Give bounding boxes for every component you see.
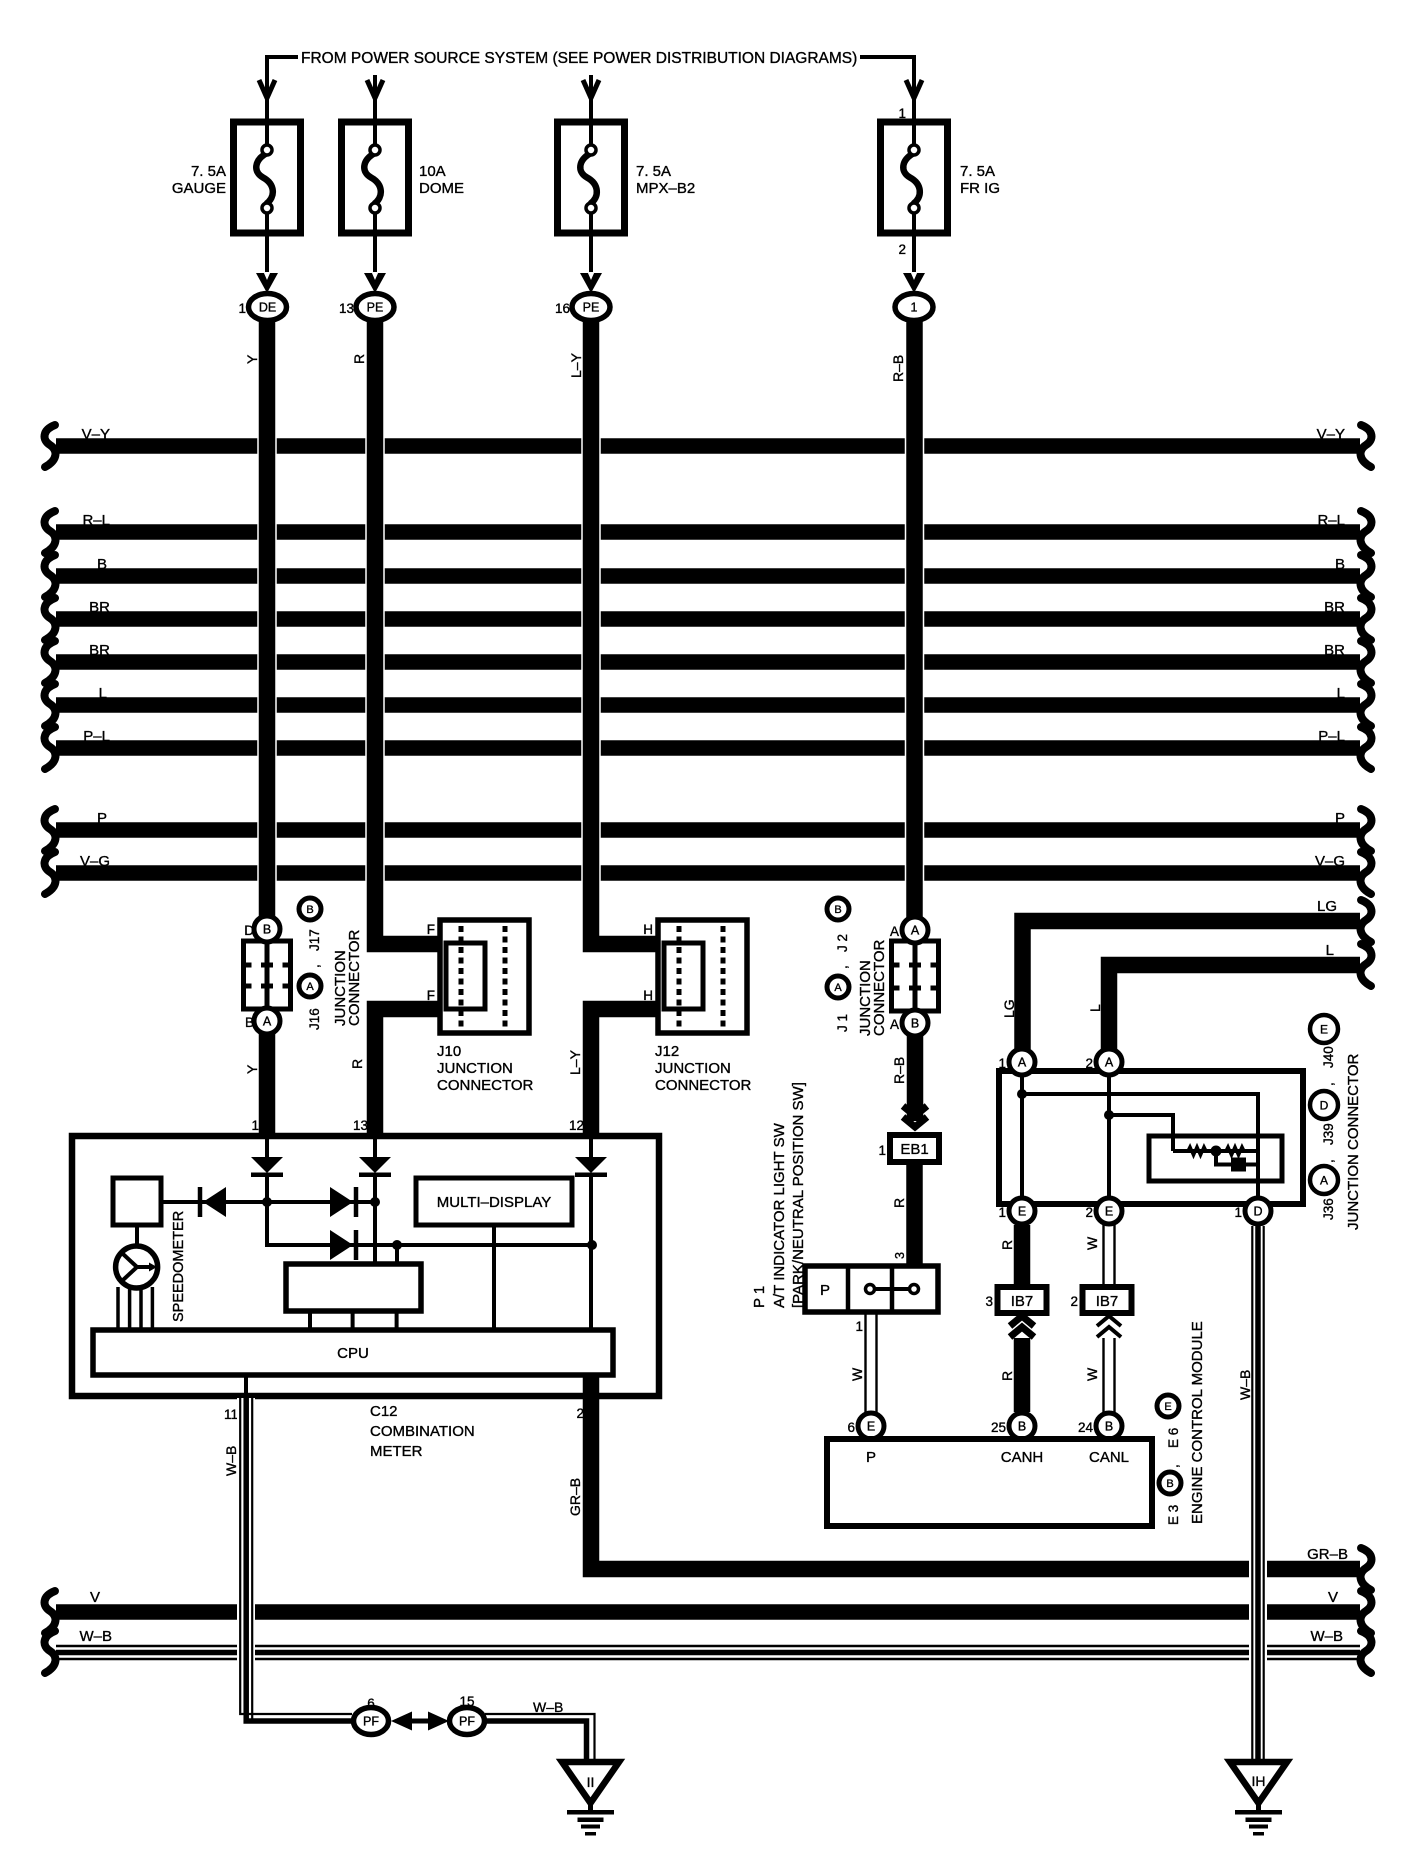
wire header to fuse F4 [860, 57, 914, 122]
diode D4 left-pointing [200, 1187, 226, 1217]
node dot row A at R [370, 1197, 380, 1207]
wire label L-Y [568, 352, 584, 378]
resistor line [1173, 1149, 1258, 1153]
connector oval 1 [895, 294, 933, 321]
wire label R lower [999, 1371, 1015, 1381]
svg-text:J17: J17 [307, 929, 322, 951]
svg-text:R: R [999, 1371, 1015, 1381]
inline arrows below IB7 (solid) [1010, 1316, 1034, 1337]
connector oval PE (13) [356, 294, 394, 321]
pin number 25 [991, 1420, 1006, 1435]
svg-text:V–G: V–G [1315, 853, 1345, 870]
fuse F3 7.5A MPX-B2 [558, 122, 625, 233]
svg-text:J10: J10 [437, 1043, 461, 1060]
wire row B to power box [395, 1245, 399, 1264]
pin number 1 at E [998, 1205, 1006, 1220]
svg-text:B: B [1335, 556, 1345, 573]
pin number 1 at EB1 [878, 1143, 886, 1158]
node dot row A at Y [262, 1197, 272, 1207]
svg-text:13: 13 [339, 301, 354, 316]
svg-text:P–L: P–L [83, 728, 110, 745]
pin 1 A circle [1009, 1049, 1035, 1075]
svg-text:J16: J16 [307, 1008, 322, 1030]
wire label R lower (J10) [349, 1059, 365, 1069]
pin 25 B circle [1009, 1413, 1035, 1439]
svg-text:P: P [866, 1449, 876, 1466]
svg-text:P 1: P 1 [751, 1286, 768, 1308]
svg-text:1: 1 [1234, 1205, 1242, 1220]
arrow on feed wire [583, 75, 599, 122]
svg-text:1: 1 [998, 1056, 1006, 1071]
label fuse F1 [172, 163, 226, 197]
wire label Y lower [244, 1064, 260, 1074]
svg-text:R: R [891, 1198, 907, 1208]
wire label W upper [1084, 1236, 1100, 1250]
svg-text:J36: J36 [1321, 1198, 1336, 1220]
svg-text:J12: J12 [655, 1043, 679, 1060]
svg-text:LG: LG [1001, 999, 1017, 1018]
svg-text:E: E [1018, 1205, 1026, 1219]
svg-text:E: E [1105, 1205, 1113, 1219]
fuse F4 7.5A FR IG [881, 122, 948, 233]
svg-text:7. 5A: 7. 5A [636, 163, 671, 180]
svg-text:R: R [351, 354, 367, 364]
svg-text:,: , [835, 965, 850, 969]
svg-text:A: A [911, 924, 920, 938]
node dot row B at power box [392, 1240, 402, 1250]
svg-text:1: 1 [911, 301, 918, 315]
arrow on feed wire [906, 80, 922, 122]
svg-text:PF: PF [363, 1715, 379, 1729]
pin 24 B circle [1096, 1413, 1122, 1439]
A/T indicator switch P1 box [805, 1266, 938, 1312]
svg-text:DE: DE [259, 301, 276, 315]
bus wire L right [1109, 942, 1371, 1049]
svg-text:B: B [306, 904, 313, 916]
internal wire node2 to resistors [1109, 1115, 1173, 1151]
pin 13 of combination meter [353, 1118, 368, 1133]
svg-text:H: H [643, 922, 653, 937]
junction connector J12 box [658, 920, 747, 1033]
svg-text:P: P [1335, 810, 1345, 827]
wire label W lower [1084, 1367, 1100, 1381]
svg-text:24: 24 [1078, 1420, 1094, 1435]
svg-text:1: 1 [878, 1143, 886, 1158]
wire R-B from J1 to EB1 [907, 1035, 924, 1121]
label J16 A , J17 B [299, 898, 322, 1030]
label E3 B , E6 E [1157, 1395, 1181, 1525]
ground IH [1230, 1762, 1287, 1836]
svg-text:METER: METER [370, 1443, 423, 1460]
wire from J12 to meter [591, 1009, 659, 1136]
svg-text:B: B [97, 556, 107, 573]
wire label R upper [999, 1240, 1015, 1250]
svg-text:FR IG: FR IG [960, 180, 1000, 197]
pin label D [244, 923, 254, 938]
svg-text:CONNECTOR: CONNECTOR [871, 939, 888, 1036]
svg-text:10A: 10A [419, 163, 446, 180]
resistor R1 [1188, 1147, 1206, 1155]
svg-text:J39: J39 [1321, 1123, 1336, 1145]
pin number 2 at A [1085, 1056, 1093, 1071]
svg-text:BR: BR [89, 599, 110, 616]
wire W from P1 to ECM pin 6E [866, 1312, 877, 1413]
connector oval PF pin 15 [450, 1708, 485, 1735]
fuse F1 7.5A GAUGE [234, 122, 301, 233]
label J12 JUNCTION CONNECTOR [655, 1043, 752, 1094]
svg-text:J 2: J 2 [835, 934, 850, 952]
svg-text:12: 12 [569, 1118, 584, 1133]
svg-text:13: 13 [353, 1118, 368, 1133]
svg-text:Y: Y [244, 354, 260, 364]
fuse F2 10A DOME [342, 122, 409, 233]
svg-text:B: B [1018, 1420, 1026, 1434]
label J1 A , J2 B [827, 898, 850, 1032]
wire L-Y vertical [591, 319, 659, 944]
svg-text:P: P [97, 810, 107, 827]
wire W-B from meter pin 11 (triple) [240, 1398, 353, 1722]
combination meter C12 box [72, 1136, 659, 1396]
label JUNCTION CONNECTOR (J16/J17) [332, 929, 363, 1026]
pin number 24 [1078, 1420, 1094, 1435]
junction connector J16/J17 box [244, 941, 291, 1009]
bus label GR-B right [1307, 1546, 1348, 1563]
svg-text:W–B: W–B [223, 1446, 239, 1476]
wire label L-Y lower (J12) [567, 1049, 583, 1075]
label JUNCTION CONNECTOR (J1/J2) [857, 939, 888, 1036]
wire R input to power box [373, 1202, 377, 1264]
label fuse F2 [419, 163, 464, 197]
pin 2 of fuse F4 [898, 242, 906, 257]
label JUNCTION CONNECTOR right [1345, 1053, 1362, 1230]
bus wire P–L [45, 727, 1372, 769]
ECM CAN block box [999, 1071, 1303, 1204]
arrow on feed wire [259, 80, 275, 122]
inline arrows below IB7-2 (open) [1097, 1316, 1121, 1337]
svg-text:EB1: EB1 [900, 1141, 928, 1158]
svg-text:D: D [1320, 1098, 1329, 1112]
diode D2 on R input [359, 1136, 391, 1202]
svg-text:2: 2 [1085, 1205, 1093, 1220]
pin number 15 at PF [459, 1694, 474, 1709]
svg-text:6: 6 [367, 1696, 375, 1711]
wire CPU to pin 11 [244, 1375, 248, 1396]
pin number 1 at A [998, 1056, 1006, 1071]
inline arrows into EB1 [903, 1106, 927, 1127]
svg-text:[PARK/NEUTRAL POSITION SW]: [PARK/NEUTRAL POSITION SW] [790, 1082, 807, 1308]
svg-text:A: A [890, 924, 899, 939]
svg-text:CONNECTOR: CONNECTOR [655, 1077, 752, 1094]
wire label R-B lower [891, 1057, 907, 1084]
odometer square [113, 1178, 161, 1225]
svg-text:BR: BR [1324, 642, 1345, 659]
wire label L [1087, 1004, 1103, 1012]
pin 1 of combination meter [251, 1118, 259, 1133]
svg-text:D: D [244, 923, 254, 938]
bus wire V–Y [45, 425, 1372, 467]
svg-text:IB7: IB7 [1011, 1293, 1034, 1310]
wire Y vertical [257, 319, 277, 918]
svg-text:E 3: E 3 [1166, 1505, 1181, 1525]
wire label LG [1001, 999, 1017, 1018]
svg-text:MULTI–DISPLAY: MULTI–DISPLAY [437, 1194, 551, 1211]
diode D3 on L-Y input [575, 1136, 607, 1330]
bus wire BR [45, 641, 1372, 683]
svg-text:1: 1 [238, 301, 246, 316]
resistor R2 [1226, 1147, 1244, 1155]
svg-text:R–L: R–L [1317, 512, 1345, 529]
svg-text:CONNECTOR: CONNECTOR [437, 1077, 534, 1094]
svg-text:ENGINE CONTROL MODULE: ENGINE CONTROL MODULE [1189, 1321, 1206, 1524]
svg-text:,: , [1166, 1464, 1181, 1468]
pin F bottom of J10 [427, 988, 435, 1003]
arrow on feed wire [367, 75, 383, 122]
svg-text:A: A [1105, 1056, 1114, 1070]
svg-text:7. 5A: 7. 5A [191, 163, 226, 180]
wire label R [351, 354, 367, 364]
svg-text:CANH: CANH [1001, 1449, 1044, 1466]
engine control module box [827, 1439, 1152, 1526]
pin 1 D circle [1245, 1198, 1271, 1224]
wire W from pin2E to IB7-2 [1104, 1225, 1115, 1287]
pin label A bottom [890, 1017, 899, 1032]
svg-text:FROM POWER SOURCE SYSTEM (SEE: FROM POWER SOURCE SYSTEM (SEE POWER DIST… [301, 50, 857, 67]
svg-text:L: L [1087, 1004, 1103, 1012]
speedometer wires to CPU [118, 1287, 152, 1330]
pin 11 label [224, 1407, 238, 1422]
bus wire P [45, 809, 1372, 851]
switch contacts [866, 1285, 919, 1294]
svg-text:25: 25 [991, 1420, 1006, 1435]
connector oval PF pin 6 [354, 1708, 389, 1735]
svg-text:B: B [245, 1015, 254, 1030]
wire label Y [244, 354, 260, 364]
svg-text:P: P [820, 1282, 830, 1299]
pin circle A bottom [254, 1008, 280, 1034]
svg-text:L–Y: L–Y [567, 1049, 583, 1075]
svg-text:B: B [263, 923, 271, 937]
connector label IB7 pin 2 [1083, 1287, 1132, 1313]
connector oval PE (16) [572, 294, 610, 321]
ground II [562, 1762, 619, 1836]
svg-text:P–L: P–L [1318, 728, 1345, 745]
svg-text:JUNCTION CONNECTOR: JUNCTION CONNECTOR [1345, 1053, 1362, 1230]
pin H top of J12 [643, 922, 653, 937]
label C12 COMBINATION METER [370, 1403, 475, 1460]
bus wire V bottom [45, 1589, 1372, 1633]
svg-text:V–Y: V–Y [82, 426, 110, 443]
svg-text:V–G: V–G [80, 853, 110, 870]
svg-text:R: R [349, 1059, 365, 1069]
svg-text:L: L [99, 685, 107, 702]
svg-text:6: 6 [847, 1420, 855, 1435]
junction connector J1/J2 box [892, 941, 939, 1011]
pin 12 of combination meter [569, 1118, 584, 1133]
svg-text:JUNCTION: JUNCTION [655, 1060, 731, 1077]
svg-text:A: A [306, 981, 314, 993]
node dot row B at L-Y [587, 1240, 597, 1250]
svg-text:15: 15 [459, 1694, 474, 1709]
svg-text:W: W [849, 1367, 865, 1381]
bus wire L [45, 684, 1372, 726]
wire W-B from PF15 to ground II [485, 1714, 595, 1760]
pin 3 of P1 switch [893, 1252, 907, 1259]
wire from J10 to meter [375, 1009, 441, 1136]
break GR-B right [1361, 1548, 1372, 1590]
connector oval DE [249, 294, 287, 321]
label J36 A , J39 D , J40 E [1310, 1015, 1338, 1220]
svg-text:3: 3 [985, 1294, 993, 1309]
label ENGINE CONTROL MODULE [1189, 1321, 1206, 1524]
svg-text:F: F [427, 922, 435, 937]
svg-text:COMBINATION: COMBINATION [370, 1423, 475, 1440]
svg-text:2: 2 [898, 242, 906, 257]
svg-text:GAUGE: GAUGE [172, 180, 226, 197]
bus wire V–G [45, 852, 1372, 894]
pin 2 A circle [1096, 1049, 1122, 1075]
pin 1 of P1 [855, 1319, 863, 1334]
wire label W (P1) [849, 1367, 865, 1381]
wire row A [161, 1200, 375, 1204]
svg-text:3: 3 [893, 1252, 907, 1259]
internal wire node1 to pin1D [1022, 1094, 1258, 1197]
wire label W-B pin11 [223, 1446, 239, 1476]
svg-text:R: R [999, 1240, 1015, 1250]
wire fuse to connector oval with arrow [256, 233, 278, 293]
bus wire LG [1023, 898, 1372, 1049]
wire fuse to connector oval with arrow [903, 233, 925, 293]
speedometer dial [116, 1246, 158, 1288]
svg-text:E: E [1320, 1022, 1328, 1036]
svg-text:C12: C12 [370, 1403, 398, 1420]
svg-text:B: B [834, 904, 841, 916]
svg-text:LG: LG [1317, 898, 1337, 915]
pin number 6 at PF [367, 1696, 375, 1711]
svg-text:GR–B: GR–B [567, 1478, 583, 1516]
svg-text:E: E [1164, 1401, 1171, 1413]
svg-text:CONNECTOR: CONNECTOR [346, 929, 363, 1026]
wire Y from J16 to meter [259, 1033, 276, 1136]
wires power box to CPU [310, 1311, 397, 1330]
diode D5 right-pointing row A [330, 1187, 356, 1217]
svg-text:16: 16 [555, 301, 570, 316]
svg-text:2: 2 [1085, 1056, 1093, 1071]
wire W to CANL pin [1104, 1338, 1115, 1413]
wire fuse to connector oval with arrow [364, 233, 386, 293]
bus wire BR [45, 598, 1372, 640]
svg-text:B: B [911, 1017, 919, 1031]
pin 1 of fuse F4 [898, 106, 906, 121]
svg-text:R–B: R–B [891, 1057, 907, 1084]
svg-text:L: L [1326, 942, 1334, 959]
svg-text:R–L: R–L [82, 512, 110, 529]
wire label R at EB1 [891, 1198, 907, 1208]
pin circle A top [902, 917, 928, 943]
label P 1 A/T INDICATOR LIGHT SW [PARK/NEUTRAL POSITION SW] [751, 1082, 807, 1308]
wire R to CANH pin [1014, 1338, 1031, 1412]
CAN terminating resistor box [1149, 1136, 1282, 1181]
bus wire R–L [45, 511, 1372, 553]
svg-text:IB7: IB7 [1096, 1293, 1119, 1310]
wire label R-B [890, 355, 906, 382]
wire R from pin1E to IB7 [1014, 1225, 1031, 1287]
svg-text:A: A [1320, 1173, 1328, 1187]
wire CPU to pin 2 [583, 1375, 600, 1396]
svg-text:V–Y: V–Y [1317, 426, 1345, 443]
pin circle B bottom [902, 1010, 928, 1036]
svg-text:Y: Y [244, 1064, 260, 1074]
svg-text:,: , [307, 964, 322, 968]
pin F top of J10 [427, 922, 435, 937]
connector label EB1 pin 1 [890, 1135, 939, 1162]
pin label B [245, 1015, 254, 1030]
pin 1 E circle [1009, 1198, 1035, 1224]
bus wire W-B bottom (triple) [45, 1628, 1372, 1673]
svg-text:L: L [1337, 685, 1345, 702]
svg-text:11: 11 [224, 1407, 238, 1422]
pin 2 label [576, 1406, 584, 1421]
label fuse F3 [636, 163, 695, 197]
pin number 2 at IB7-2 [1070, 1294, 1078, 1309]
svg-text:W–B: W–B [1310, 1628, 1343, 1645]
wire MULTI-DISPLAY to CPU [492, 1225, 496, 1330]
node dot pin2 wire [1104, 1110, 1114, 1120]
wire label GR-B [567, 1478, 583, 1516]
svg-text:W: W [1084, 1367, 1100, 1381]
internal wire pin1A to pin1E [1020, 1075, 1024, 1197]
wire label W-B right [1237, 1370, 1253, 1400]
svg-text:L–Y: L–Y [568, 352, 584, 378]
svg-text:1: 1 [998, 1205, 1006, 1220]
svg-text:E: E [867, 1420, 875, 1434]
svg-text:BR: BR [89, 642, 110, 659]
svg-text:PE: PE [367, 301, 384, 315]
svg-text:J40: J40 [1321, 1046, 1336, 1068]
svg-text:D: D [1253, 1205, 1262, 1219]
svg-text:B: B [1105, 1420, 1113, 1434]
svg-text:PE: PE [583, 301, 600, 315]
svg-text:A/T INDICATOR LIGHT SW: A/T INDICATOR LIGHT SW [771, 1122, 788, 1308]
CPU box [93, 1330, 613, 1375]
svg-text:V: V [1328, 1589, 1338, 1606]
pin number 6 [847, 1420, 855, 1435]
connector label IB7 pin 3 [998, 1287, 1047, 1313]
wire square to speedometer [135, 1225, 139, 1247]
svg-text:W–B: W–B [533, 1699, 563, 1715]
node dot pin1 wire [1017, 1089, 1027, 1099]
svg-text:JUNCTION: JUNCTION [437, 1060, 513, 1077]
wire R-B vertical [905, 319, 925, 918]
diode D1 on Y input [251, 1136, 283, 1202]
svg-text:BR: BR [1324, 599, 1345, 616]
svg-text:W–B: W–B [79, 1628, 112, 1645]
svg-text:W: W [1084, 1236, 1100, 1250]
pin number 2 at E [1085, 1205, 1093, 1220]
pin H bottom of J12 [643, 988, 653, 1003]
wire W-B from pin 1D to ground IH (triple) [1252, 1226, 1263, 1760]
wire GR-B from pin2 [591, 1396, 1360, 1569]
svg-text:GR–B: GR–B [1307, 1546, 1348, 1563]
label fuse F4 [960, 163, 1000, 197]
svg-text:2: 2 [1070, 1294, 1078, 1309]
svg-text:A: A [263, 1015, 272, 1029]
svg-text:A: A [890, 1017, 899, 1032]
label J10 JUNCTION CONNECTOR [437, 1043, 534, 1094]
pin number 1 at D [1234, 1205, 1242, 1220]
label SPEEDOMETER [171, 1211, 187, 1322]
bus wire B [45, 555, 1372, 597]
pin 2 E circle [1096, 1198, 1122, 1224]
